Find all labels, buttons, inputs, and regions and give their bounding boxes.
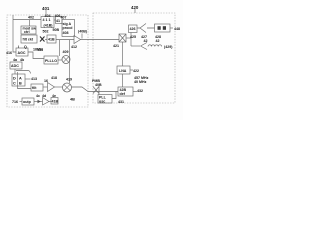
svg-text:4e: 4e <box>52 94 56 98</box>
svg-text:409: 409 <box>63 50 69 54</box>
dashed block 420 <box>93 13 175 103</box>
text blobs <box>6 5 180 104</box>
svg-text:419: 419 <box>66 78 72 82</box>
svg-text:def: def <box>120 92 126 96</box>
svg-text:4B: 4B <box>70 98 75 102</box>
svg-text:osc: osc <box>99 100 105 104</box>
wire Q2 side <box>16 71 31 74</box>
svg-text:421: 421 <box>113 44 119 48</box>
box C2 <box>56 17 63 24</box>
switch stem <box>122 42 124 66</box>
svg-text:16: 16 <box>44 79 48 83</box>
switch X1 <box>119 34 126 42</box>
wire branch vertical <box>130 33 132 47</box>
wire amp2 to mixer2 <box>55 86 63 88</box>
svg-text:418: 418 <box>51 76 57 80</box>
svg-text:407: 407 <box>61 16 67 20</box>
svg-text:408: 408 <box>63 31 69 35</box>
svg-text:40 MHz: 40 MHz <box>134 80 147 84</box>
svg-text:outp: outp <box>23 100 32 104</box>
svg-text:432: 432 <box>137 89 143 93</box>
wire PLL1 to mixer1 <box>58 59 63 61</box>
svg-text:431: 431 <box>118 100 124 104</box>
X mark row B <box>40 37 45 42</box>
svg-text:41B: 41B <box>52 100 59 104</box>
svg-text:4d: 4d <box>42 94 46 98</box>
wire LNA down <box>122 74 124 87</box>
wire R4 elbow <box>112 92 116 99</box>
svg-text:18MH: 18MH <box>33 48 43 52</box>
box B1 <box>21 26 36 34</box>
wire W1 input <box>13 19 41 21</box>
wire R3 right <box>133 91 137 93</box>
svg-text:41: 41 <box>56 19 60 23</box>
wire F1 to amp2 <box>43 86 48 88</box>
svg-text:404: 404 <box>45 14 51 18</box>
wire Q1 to PLL1 <box>28 52 44 59</box>
svg-text:I: I <box>18 45 19 49</box>
svg-text:B: B <box>19 82 22 86</box>
box E1 <box>12 74 25 86</box>
dashed block 401 <box>7 15 88 107</box>
label 420 leader <box>134 9 136 13</box>
svg-text:filt ckt: filt ckt <box>23 38 34 42</box>
box PLL1 <box>44 56 58 64</box>
fan lower <box>141 43 148 50</box>
svg-text:448: 448 <box>174 27 180 31</box>
box F1 <box>31 84 43 91</box>
svg-text:42: 42 <box>156 39 160 43</box>
leader R4 top <box>98 86 100 95</box>
wire V2 mixer1 up <box>69 40 71 83</box>
fan upper <box>137 24 155 33</box>
svg-text:502: 502 <box>43 30 49 34</box>
tick E1 top <box>17 72 19 74</box>
arrowhead on wire <box>38 100 41 103</box>
svg-text:4 1 1: 4 1 1 <box>43 18 51 22</box>
svg-text:ctrl: ctrl <box>24 30 30 34</box>
box R3 <box>118 87 133 96</box>
box Q1 <box>16 48 28 56</box>
wire X to branch <box>126 37 131 39</box>
svg-text:AGC: AGC <box>18 51 26 55</box>
wire V1 vertical <box>13 15 16 52</box>
amplifier A2 <box>48 83 55 92</box>
box T signal processor <box>62 20 75 37</box>
box G1 <box>22 98 34 105</box>
wire B3 to amp <box>56 39 74 41</box>
box G2 <box>51 98 58 105</box>
amplifier A1 <box>74 36 81 44</box>
wire G1 to amp3 <box>34 101 43 103</box>
LNA label dash <box>130 69 133 71</box>
wire RX out <box>72 87 119 92</box>
svg-text:LNA: LNA <box>119 69 127 73</box>
svg-text:(40B): (40B) <box>78 30 88 34</box>
svg-text:41B: 41B <box>48 38 55 42</box>
svg-text:412: 412 <box>71 45 77 49</box>
svg-text:402: 402 <box>28 16 34 20</box>
svg-text:716: 716 <box>12 100 18 104</box>
lower branch wire <box>131 45 140 47</box>
svg-text:ADC: ADC <box>11 64 19 68</box>
wire TX out <box>81 39 120 41</box>
box A 426 <box>129 25 138 33</box>
box R4 <box>98 95 112 104</box>
svg-text:(41B): (41B) <box>44 24 54 28</box>
box LNA <box>117 66 130 74</box>
wire stub to B1 <box>29 20 31 26</box>
leader 410 <box>81 34 83 39</box>
wire Q2 down <box>14 69 16 74</box>
svg-text:425: 425 <box>130 35 136 39</box>
meander antenna <box>148 45 162 47</box>
svg-text:A: A <box>19 77 22 81</box>
svg-text:401: 401 <box>42 6 50 11</box>
mixer M1 <box>62 56 70 64</box>
wire E1 bottom elbow <box>18 86 32 89</box>
svg-text:LO: LO <box>52 59 57 63</box>
svg-text:(429): (429) <box>164 45 173 49</box>
box B phase shifters <box>155 24 171 32</box>
wire amp3 out <box>49 101 51 103</box>
svg-text:420: 420 <box>131 5 139 10</box>
svg-text:50B: 50B <box>53 28 60 32</box>
svg-text:422: 422 <box>133 69 139 73</box>
svg-text:426: 426 <box>130 27 136 31</box>
amplifier A3 <box>43 98 50 106</box>
svg-text:Q: Q <box>24 45 27 49</box>
wire C1-C2 <box>54 19 56 21</box>
bottom row text dash <box>20 101 23 103</box>
box B2 <box>21 35 37 43</box>
wire E1 right <box>25 78 31 80</box>
box B3 <box>47 35 56 43</box>
svg-text:C: C <box>13 82 16 86</box>
wire box B out <box>170 27 173 29</box>
box Q2 <box>10 62 22 69</box>
box C1 <box>41 17 54 28</box>
svg-text:413: 413 <box>31 77 37 81</box>
wire TX row <box>45 39 47 41</box>
svg-text:416: 416 <box>6 51 12 55</box>
label 401 leader <box>45 10 47 15</box>
svg-text:40B: 40B <box>95 83 102 87</box>
box B squares <box>158 26 161 30</box>
svg-text:D: D <box>13 77 16 81</box>
svg-text:procd: procd <box>63 26 73 30</box>
svg-text:42: 42 <box>144 39 148 43</box>
arrow X rx <box>93 87 99 94</box>
mixer M2 <box>63 83 72 92</box>
wire V4 pll feedback <box>59 40 61 56</box>
svg-text:4c: 4c <box>36 94 40 98</box>
